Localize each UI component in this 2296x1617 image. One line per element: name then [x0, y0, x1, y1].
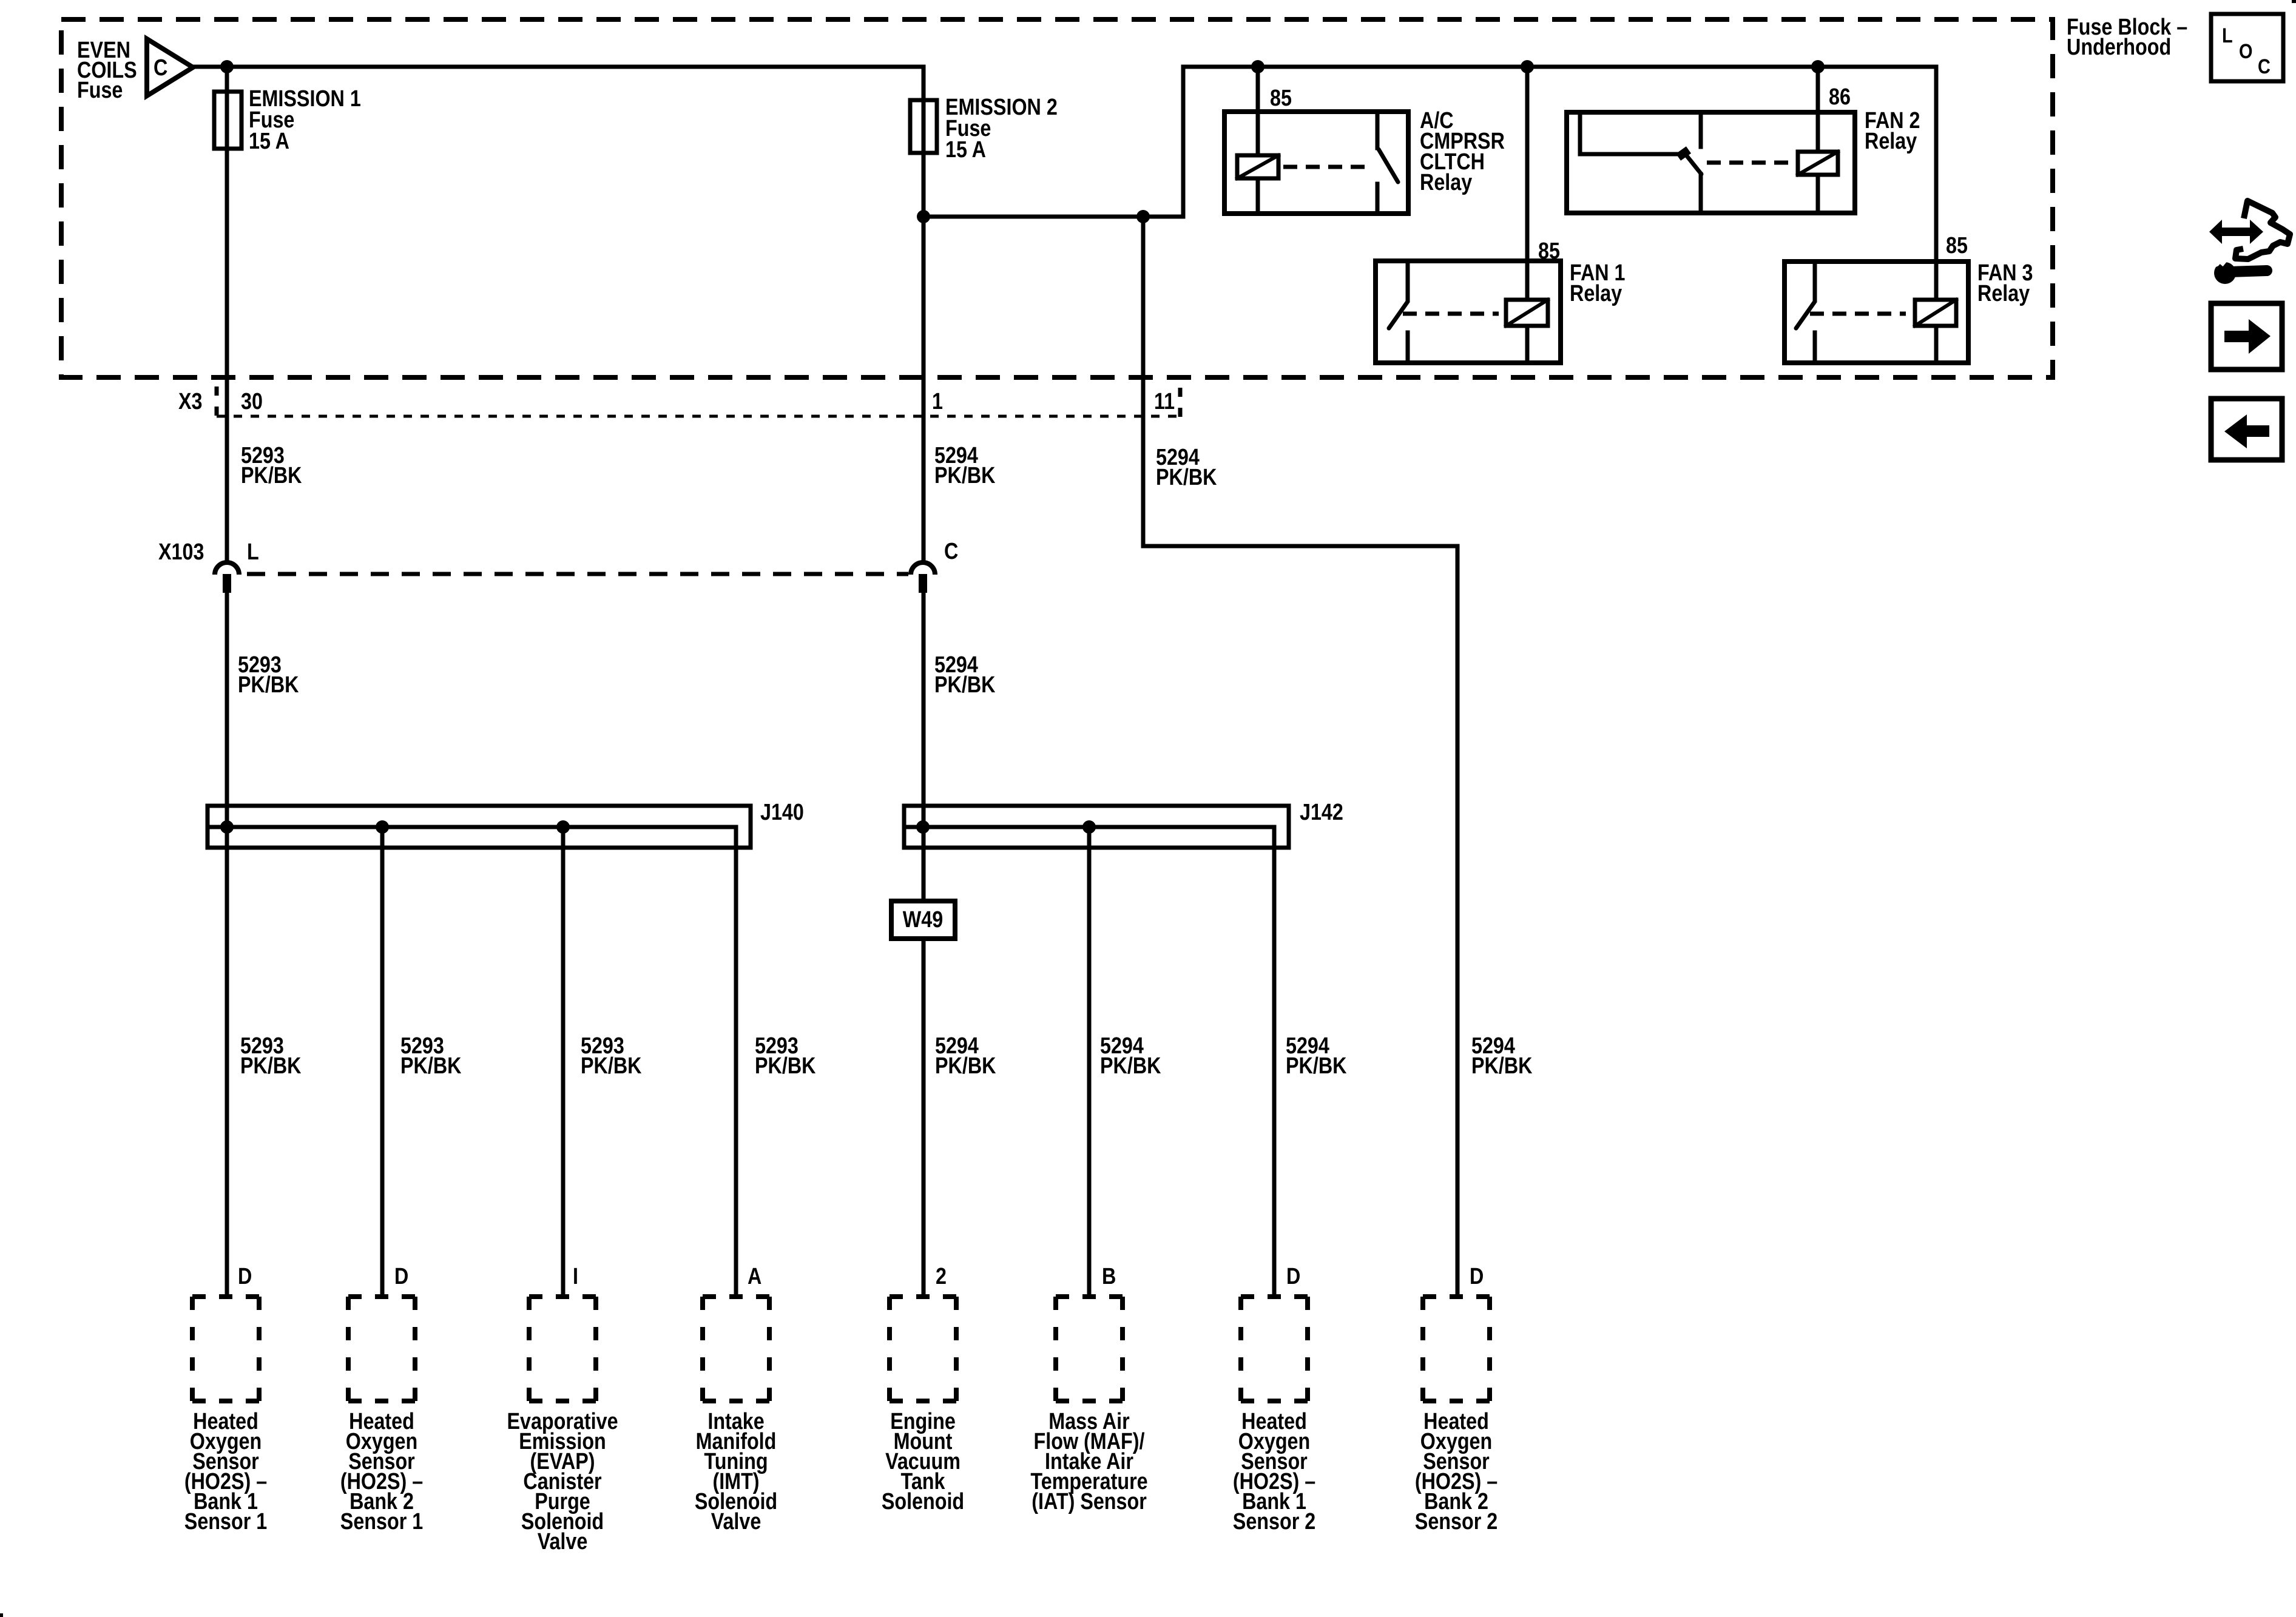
connector box MAF IAT Sensor	[1056, 1297, 1123, 1401]
svg-text:PK/BK: PK/BK	[1100, 1053, 1161, 1079]
back arrow box icon	[2211, 399, 2282, 460]
fuse EMISSION 2	[910, 100, 937, 153]
label Fuse Block - Underhood	[2067, 15, 2187, 60]
connector box EVAP Canister Purge Solenoid Valve	[529, 1297, 596, 1401]
wire down to HO2S bank2 sensor2	[1456, 546, 1460, 1297]
junction top wire / EMISSION 1	[220, 60, 234, 73]
FAN1 switch blade	[1389, 302, 1408, 328]
FAN3 switch top stub	[1813, 262, 1817, 300]
splice W49	[891, 901, 955, 939]
svg-text:B: B	[1102, 1264, 1116, 1289]
AC relay switch blade	[1379, 149, 1398, 182]
splice pack J140	[208, 806, 751, 848]
label EMISSION 1 Fuse 15A	[249, 86, 361, 154]
X3 right tick	[1178, 388, 1183, 418]
page corner mark bottom-left	[0, 1613, 3, 1617]
connector box Intake Manifold Tuning Solenoid Valve	[703, 1297, 769, 1401]
FAN2 switch pivot stub	[1699, 112, 1703, 147]
svg-text:Sensor 1: Sensor 1	[340, 1509, 423, 1534]
connector box Heated Oxygen Sensor HO2S Bank1 Sensor1	[192, 1297, 259, 1401]
junction top wire / FAN 2 relay coil	[1811, 60, 1825, 73]
label EVEN COILS Fuse	[77, 38, 137, 103]
svg-text:PK/BK: PK/BK	[934, 672, 996, 698]
X103 pin C connector	[911, 562, 935, 575]
wire label 5293 PK/BK (pin30)	[241, 443, 302, 488]
wire FAN2 coil lead pin 86	[1816, 67, 1820, 152]
svg-text:Sensor 2: Sensor 2	[1233, 1509, 1315, 1534]
AC relay switch fixed stub	[1376, 112, 1380, 148]
coil FAN1 relay	[1506, 300, 1548, 326]
label Heated Oxygen Sensor HO2S Bank2 Sensor1	[340, 1409, 423, 1534]
page corner mark top-right	[2292, 0, 2296, 3]
svg-text:L: L	[2222, 24, 2233, 47]
wire top feed left segment	[193, 65, 923, 69]
svg-text:PK/BK: PK/BK	[1156, 465, 1217, 490]
svg-text:PK/BK: PK/BK	[238, 672, 299, 698]
svg-text:A: A	[748, 1264, 761, 1289]
svg-text:PK/BK: PK/BK	[755, 1053, 816, 1079]
svg-text:X3: X3	[178, 389, 202, 414]
connector box Heated Oxygen Sensor HO2S Bank2 Sensor1	[348, 1297, 415, 1401]
svg-text:85: 85	[1946, 233, 1968, 258]
FAN2 switch bottom stub	[1699, 174, 1703, 213]
svg-text:Valve: Valve	[538, 1529, 588, 1555]
EVEN COILS Fuse source triangle C	[147, 39, 193, 96]
wire FAN1 coil lead pin 85	[1525, 67, 1530, 300]
wire pin 11 branch jog right	[1143, 544, 1457, 549]
wire label 5293 PK/BK column x1244	[755, 1033, 816, 1079]
label EVAP Canister Purge Solenoid Valve	[507, 1409, 618, 1555]
svg-text:I: I	[573, 1264, 578, 1289]
coil FAN2 relay	[1798, 152, 1838, 175]
junction J142 wire2	[1082, 820, 1096, 834]
underhood service icon (hood outline with arrow and wrench)	[2209, 201, 2290, 284]
svg-text:Relay: Relay	[1570, 281, 1622, 306]
label EMISSION 2 Fuse 15A	[945, 95, 1058, 163]
svg-text:O: O	[2239, 39, 2252, 63]
svg-text:PK/BK: PK/BK	[935, 1053, 996, 1079]
svg-text:Solenoid: Solenoid	[882, 1489, 964, 1514]
wire vertical riser	[1181, 67, 1186, 217]
wire label 5294 PK/BK column x2425	[1471, 1033, 1533, 1079]
relay A/C CMPRSR CLTCH	[1224, 112, 1408, 214]
svg-text:Underhood: Underhood	[2067, 35, 2171, 60]
svg-text:Valve: Valve	[711, 1509, 761, 1534]
wire J140 to HO2S B2S1	[380, 827, 385, 1297]
coil AC relay	[1237, 155, 1278, 178]
svg-text:85: 85	[1270, 86, 1292, 111]
dashed actuator link FAN1	[1403, 312, 1499, 316]
FAN3 switch blade	[1796, 302, 1815, 328]
wire label 5293 PK/BK column x660	[400, 1033, 462, 1079]
label Intake Manifold Tuning Solenoid Valve	[695, 1409, 777, 1534]
junction top wire / FAN 1 relay	[1521, 60, 1534, 73]
svg-text:C: C	[944, 539, 958, 564]
wire AC relay coil lead	[1256, 67, 1260, 155]
svg-text:C: C	[2258, 55, 2271, 78]
connector box Heated Oxygen Sensor HO2S Bank1 Sensor2	[1241, 1297, 1308, 1401]
svg-text:11: 11	[1154, 389, 1175, 414]
connector box Heated Oxygen Sensor HO2S Bank2 Sensor2	[1423, 1297, 1490, 1401]
FAN1 switch top stub	[1406, 261, 1410, 300]
wire J142 to HO2S B1S2	[1272, 827, 1277, 1297]
relay FAN 2	[1567, 112, 1855, 213]
junction EMISSION 2 / branch	[917, 210, 930, 223]
svg-text:1: 1	[932, 389, 943, 414]
junction J142 wire1	[916, 820, 930, 834]
svg-text:Sensor 2: Sensor 2	[1415, 1509, 1497, 1534]
wire J140 to IMT	[734, 827, 738, 1297]
junction J140 wire3	[556, 820, 570, 834]
svg-text:C: C	[154, 55, 167, 81]
svg-text:PK/BK: PK/BK	[1471, 1053, 1533, 1079]
FAN2 switch contact tip	[1678, 150, 1689, 157]
X103 pin L connector	[215, 562, 239, 575]
svg-text:86: 86	[1829, 84, 1851, 110]
wire EMISSION 2 fuse top lead	[922, 67, 926, 100]
dashed actuator link AC relay	[1283, 165, 1367, 169]
wire label 5294 PK/BK column x1541	[935, 1033, 996, 1079]
AC relay switch bottom stub	[1376, 184, 1380, 214]
svg-text:L: L	[247, 539, 259, 565]
svg-text:2: 2	[936, 1264, 947, 1289]
wire EMISSION 2 branch down to X103	[922, 100, 926, 558]
label Heated Oxygen Sensor HO2S Bank1 Sensor2	[1233, 1409, 1315, 1534]
forward arrow box icon	[2211, 303, 2282, 370]
wire label 5294 PK/BK column x1813	[1100, 1033, 1161, 1079]
relay FAN 1	[1376, 261, 1561, 363]
label Engine Mount Vacuum Tank Solenoid	[882, 1409, 964, 1514]
svg-text:W49: W49	[903, 907, 943, 933]
dashed actuator link FAN3	[1810, 312, 1906, 316]
junction top wire / AC relay coil	[1251, 60, 1264, 73]
wire pin 11 branch vertical	[1141, 217, 1146, 546]
FAN2 switch blade	[1684, 153, 1701, 174]
dashed actuator link FAN2	[1707, 161, 1790, 165]
FAN3 switch bottom stub	[1813, 333, 1817, 363]
svg-text:Relay: Relay	[1865, 129, 1917, 154]
label Heated Oxygen Sensor HO2S Bank2 Sensor2	[1415, 1409, 1497, 1534]
relay FAN 3	[1784, 262, 1968, 363]
J142 bus bar	[906, 825, 1274, 829]
wire J140 to EVAP	[561, 827, 566, 1297]
LOC box icon	[2211, 14, 2283, 81]
wire horizontal at y357	[923, 215, 1183, 219]
svg-text:X103: X103	[158, 539, 204, 565]
svg-text:85: 85	[1538, 238, 1560, 264]
wire label 5294 PK/BK (pin1)	[934, 443, 996, 488]
junction branch to pin 11	[1136, 210, 1150, 223]
svg-text:Sensor 1: Sensor 1	[184, 1509, 267, 1534]
wire J142 to MAF/IAT	[1087, 827, 1092, 1297]
fuse EMISSION 1	[214, 92, 241, 149]
svg-text:PK/BK: PK/BK	[1286, 1053, 1347, 1079]
svg-text:PK/BK: PK/BK	[934, 463, 996, 488]
X3 left tick	[215, 387, 219, 417]
wire top feed right segment	[1183, 65, 1936, 69]
svg-text:15 A: 15 A	[945, 137, 986, 163]
svg-text:J140: J140	[760, 800, 804, 825]
X103 dashed line	[247, 572, 908, 576]
X3 dotted line	[217, 415, 1180, 418]
FAN1 switch bottom stub	[1406, 333, 1410, 363]
svg-text:(IAT) Sensor: (IAT) Sensor	[1032, 1489, 1147, 1514]
svg-text:Fuse: Fuse	[77, 78, 123, 103]
svg-text:PK/BK: PK/BK	[581, 1053, 642, 1079]
junction J140 wire2	[376, 820, 389, 834]
svg-text:Relay: Relay	[1977, 281, 2030, 306]
svg-text:D: D	[394, 1264, 408, 1289]
junction J140 wire1	[220, 820, 234, 834]
wire label 5294 PK/BK (pin11)	[1156, 445, 1217, 490]
label FAN 2 Relay	[1865, 108, 1920, 154]
label FAN 3 Relay	[1977, 260, 2033, 306]
wire W49 to engine mount solenoid	[922, 939, 926, 1297]
wire EMISSION 1 branch down to X103	[225, 67, 229, 558]
label Heated Oxygen Sensor HO2S Bank1 Sensor1	[184, 1409, 267, 1534]
svg-text:J142: J142	[1300, 800, 1343, 825]
wire label 5293 PK/BK column x957	[581, 1033, 642, 1079]
wire label 5294 PK/BK column x2119	[1286, 1033, 1347, 1079]
svg-text:D: D	[1470, 1264, 1484, 1289]
connector box Engine Mount Vacuum Tank Solenoid	[890, 1297, 956, 1401]
svg-text:D: D	[238, 1264, 252, 1289]
wire 5294 to J142	[922, 593, 926, 901]
splice pack J142	[904, 806, 1289, 848]
svg-text:D: D	[1286, 1264, 1300, 1289]
wire label 5293 PK/BK column x396	[240, 1033, 302, 1079]
wire FAN3 coil lead pin 85	[1934, 67, 1939, 300]
coil FAN3 relay	[1915, 300, 1956, 326]
svg-text:15 A: 15 A	[249, 129, 289, 154]
label MAF IAT Sensor	[1030, 1409, 1147, 1514]
svg-text:30: 30	[241, 389, 263, 414]
label A/C CMPRSR CLTCH Relay	[1420, 108, 1505, 195]
label FAN 1 Relay	[1570, 260, 1626, 306]
wire 5293 to J140 and HO2S B1S1	[225, 593, 229, 1297]
wire label 5293 PK/BK below X103	[238, 652, 299, 698]
svg-text:Relay: Relay	[1420, 170, 1473, 195]
wire label 5294 PK/BK below X103	[934, 652, 996, 698]
fuse block underhood dashed box	[61, 19, 2053, 377]
J140 bus bar	[209, 825, 736, 829]
svg-text:PK/BK: PK/BK	[240, 1053, 302, 1079]
svg-text:PK/BK: PK/BK	[241, 463, 302, 488]
svg-text:PK/BK: PK/BK	[400, 1053, 462, 1079]
